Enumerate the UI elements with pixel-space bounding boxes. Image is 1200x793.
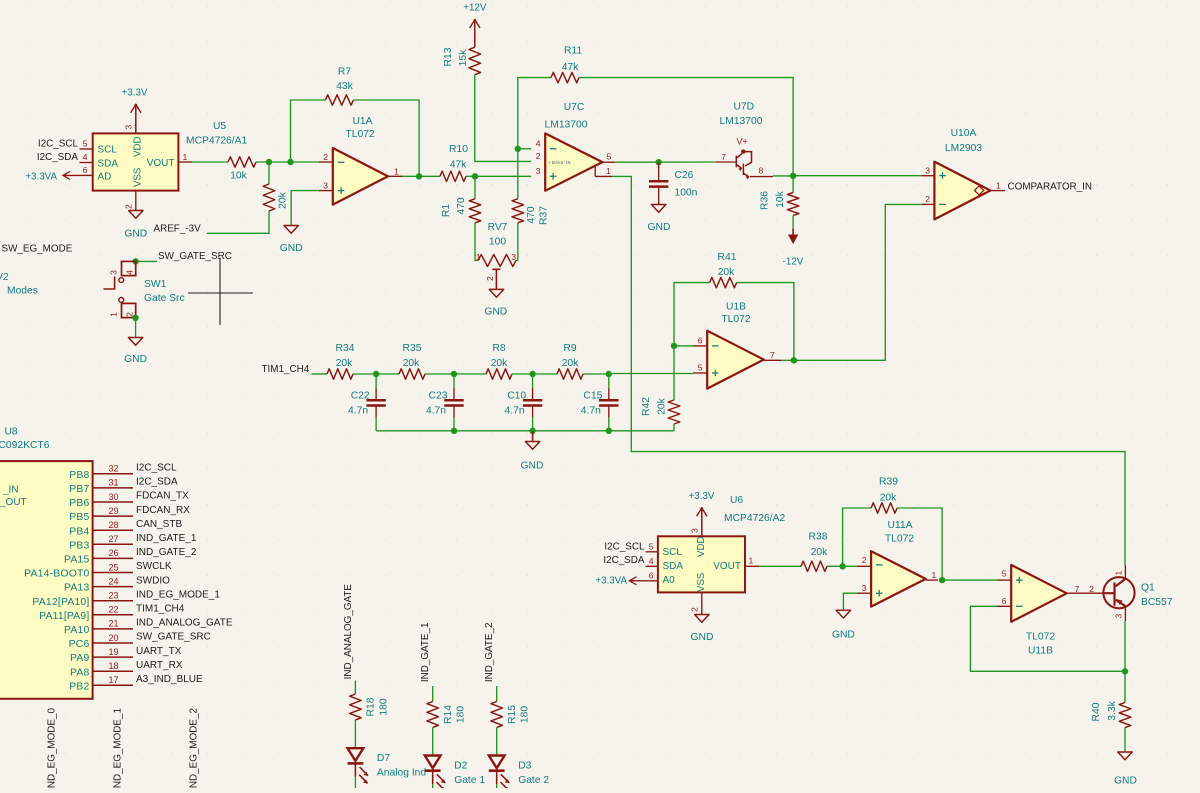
resistor R34 20k	[327, 369, 353, 379]
junction C15 tap	[606, 371, 612, 377]
U6 pin 1 (VOUT)	[745, 565, 759, 567]
ground below RV7 wiper	[489, 289, 503, 297]
svg-text:4.7n: 4.7n	[581, 405, 601, 416]
svg-text:IND_ANALOG_GATE: IND_ANALOG_GATE	[136, 618, 233, 629]
wire R36 to -12V	[792, 216, 794, 229]
svg-text:IND_GATE_1: IND_GATE_1	[420, 622, 431, 682]
svg-text:6: 6	[649, 571, 654, 581]
svg-text:TL072: TL072	[721, 314, 750, 325]
IC U8 STM32C092KCT6 body (clipped at left)	[0, 461, 93, 699]
svg-text:R18: R18	[366, 697, 377, 716]
junction R39 tap	[839, 563, 845, 569]
U11B pin 5 non-inverting	[997, 579, 1011, 581]
junction rail C15	[606, 428, 612, 434]
power +3.3VA at U6 pin 6	[630, 580, 646, 582]
svg-text:PB2: PB2	[69, 681, 89, 692]
svg-text:GND: GND	[124, 229, 147, 240]
U5 pin 3 (VDD)	[135, 119, 137, 133]
wire IND_GATE_1 to R14	[432, 686, 434, 702]
wire U5 VOUT to R10k	[192, 161, 228, 163]
U1B pin 5 non-inverting	[693, 372, 707, 374]
svg-text:100n: 100n	[675, 187, 698, 198]
svg-text:GND: GND	[691, 632, 714, 643]
svg-text:PA11[PA9]: PA11[PA9]	[39, 611, 89, 622]
wire R35 to R8	[425, 373, 486, 375]
svg-text:PB3: PB3	[69, 540, 89, 551]
op-amp U11A TL072 body	[871, 551, 926, 606]
svg-text:D3: D3	[518, 761, 531, 772]
resistor R13 15k vertical	[469, 47, 481, 74]
svg-text:V+: V+	[737, 136, 748, 146]
wire R11 right to U7D output node	[579, 78, 793, 176]
svg-text:3: 3	[690, 528, 700, 533]
power +3.3VA at U5 pin 6	[63, 174, 80, 176]
svg-text:7: 7	[770, 350, 775, 360]
svg-text:IND_ANALOG_GATE: IND_ANALOG_GATE	[343, 584, 354, 680]
wire U6 VOUT to R38	[759, 565, 801, 567]
U8 pin 24 PA13 -> SWDIO	[93, 586, 133, 588]
U10A pin 3 non-inverting	[922, 175, 935, 177]
resistor R36 10k vertical	[787, 193, 799, 216]
U5 pin 2 (VSS)	[135, 191, 137, 211]
U8 pin 31 PB7 -> I2C_SDA	[93, 487, 133, 489]
svg-text:47k: 47k	[562, 62, 579, 73]
wire U11A + input to ground	[843, 593, 857, 610]
svg-text:GND: GND	[521, 461, 544, 472]
svg-text:C22: C22	[351, 391, 370, 402]
wire junction to U10A non-inverting input	[793, 175, 922, 177]
LED D3	[489, 756, 505, 769]
svg-text:C23: C23	[429, 391, 448, 402]
svg-text:3.3k: 3.3k	[1107, 700, 1118, 720]
svg-text:6: 6	[83, 165, 88, 175]
svg-text:VOUT: VOUT	[147, 158, 175, 169]
svg-text:LM13700: LM13700	[545, 120, 588, 131]
svg-text:R11: R11	[564, 45, 582, 56]
svg-text:2: 2	[1089, 584, 1094, 594]
U10A pin 1 output	[990, 190, 1005, 192]
junction SW1 pin 2	[132, 315, 138, 321]
wire R9 to U1B non-inverting input	[583, 373, 609, 375]
svg-text:U6: U6	[730, 495, 743, 506]
svg-text:I2C_SCL: I2C_SCL	[136, 463, 177, 474]
U8 pin 22 PA11[PA9] -> TIM1_CH4	[93, 614, 133, 616]
U7C pin 1 (bias out bottom)	[594, 167, 596, 177]
IC U6 MCP4726/A2 body	[658, 536, 745, 592]
svg-text:U11B: U11B	[1028, 645, 1053, 656]
svg-text:20k: 20k	[880, 493, 897, 504]
svg-text:3: 3	[536, 166, 541, 176]
svg-text:I2C_SCL: I2C_SCL	[604, 541, 645, 552]
resistor 10k (series from U5)	[228, 157, 256, 167]
svg-text:SW1: SW1	[144, 279, 167, 290]
svg-text:20k: 20k	[811, 547, 828, 558]
svg-text:2: 2	[536, 151, 541, 161]
wire junction to U7C pin 4	[518, 148, 531, 150]
svg-text:PA8: PA8	[70, 667, 89, 678]
junction C26 tap	[656, 159, 662, 165]
wire U1A + input to ground	[291, 191, 319, 226]
svg-text:180: 180	[456, 706, 467, 723]
U7D pin 8 output	[750, 176, 773, 178]
svg-text:+3.3V: +3.3V	[689, 491, 715, 502]
svg-text:PB4: PB4	[69, 526, 89, 537]
junction U7D output node	[790, 173, 796, 179]
svg-text:C092KCT6: C092KCT6	[0, 440, 50, 451]
svg-text:VSS: VSS	[696, 572, 707, 592]
svg-text:25: 25	[108, 562, 118, 572]
svg-text:Gate 2: Gate 2	[518, 775, 549, 786]
svg-text:27: 27	[108, 534, 118, 544]
op-amp U11B TL072 body	[1011, 565, 1066, 622]
svg-text:31: 31	[108, 478, 118, 488]
svg-text:SWDIO: SWDIO	[136, 575, 170, 586]
svg-text:20k: 20k	[403, 358, 420, 369]
svg-text:3: 3	[109, 270, 119, 275]
ground below C26	[652, 205, 666, 213]
SW1 lever	[104, 277, 115, 290]
op-amp U1B TL072 body	[707, 331, 764, 389]
wire R7 feedback left leg	[291, 100, 326, 162]
U7C pin 5 output	[602, 161, 615, 163]
svg-text:MCP4726/A1: MCP4726/A1	[186, 136, 248, 147]
svg-text:2: 2	[323, 152, 328, 162]
svg-text:UART_RX: UART_RX	[136, 660, 183, 671]
svg-text:SCL: SCL	[98, 145, 118, 156]
resistor R1 470 vertical	[474, 176, 476, 199]
svg-text:10k: 10k	[230, 171, 247, 182]
svg-text:SW_EG_MODE: SW_EG_MODE	[2, 244, 73, 255]
wire 20k tap down	[268, 162, 270, 184]
wire Q1 emitter to junction	[1124, 621, 1126, 672]
ground below R40	[1118, 752, 1132, 760]
svg-text:D7: D7	[377, 753, 390, 764]
capacitor bottom rail wire	[376, 430, 674, 432]
svg-text:3: 3	[124, 125, 134, 130]
svg-text:20k: 20k	[718, 267, 735, 278]
svg-text:28: 28	[108, 520, 118, 530]
wire R38 to U11A inverting input	[827, 565, 857, 567]
svg-text:R14: R14	[443, 705, 454, 724]
svg-text:30: 30	[108, 492, 118, 502]
svg-text:I2C_SDA: I2C_SDA	[603, 555, 645, 566]
U8 pin 17 PB2 -> A3_IND_BLUE	[93, 684, 133, 686]
svg-text:PB8: PB8	[69, 470, 89, 481]
svg-text:1: 1	[109, 312, 119, 317]
svg-text:AREF_-3V: AREF_-3V	[154, 223, 202, 234]
svg-text:R41: R41	[718, 252, 737, 263]
svg-text:TL072: TL072	[885, 534, 914, 545]
svg-text:R8: R8	[492, 343, 505, 354]
svg-text:COMPARATOR_IN: COMPARATOR_IN	[1008, 182, 1093, 193]
junction R1 tap	[472, 173, 478, 179]
svg-text:IND_GATE_2: IND_GATE_2	[484, 623, 495, 683]
svg-text:GND: GND	[280, 243, 303, 254]
ground below ladder	[532, 432, 534, 442]
junction U11A output	[939, 577, 945, 583]
U8 pin 23 PA12[PA10] -> IND_EG_MODE_1	[93, 600, 133, 602]
svg-text:PA12[PA10]: PA12[PA10]	[32, 597, 89, 608]
svg-text:U8: U8	[5, 427, 18, 438]
wire U7C pin1 long route to Q1 collector	[612, 176, 1125, 565]
svg-text:PA14-BOOT0: PA14-BOOT0	[24, 569, 89, 580]
svg-text:SCL: SCL	[663, 547, 683, 558]
U6 pin 2 (VSS)	[701, 592, 703, 614]
wire U1B output up to U10A inverting input	[794, 204, 922, 360]
svg-text:TL072: TL072	[346, 129, 375, 140]
svg-text:LM2903: LM2903	[945, 143, 982, 154]
svg-text:Gate 1: Gate 1	[454, 775, 485, 786]
wire U1B output to junction	[781, 359, 794, 361]
resistor R14 180 vertical	[427, 702, 439, 728]
svg-text:MCP4726/A2: MCP4726/A2	[724, 513, 786, 524]
svg-text:R40: R40	[1091, 702, 1102, 721]
svg-text:A0: A0	[663, 575, 676, 586]
U5 pin 5 (SCL)	[80, 148, 93, 150]
U5 pin 4 (SDA)	[80, 162, 93, 164]
wire R15 to D3	[496, 728, 498, 756]
wire D2 cathode down	[432, 771, 434, 784]
svg-text:U7D: U7D	[734, 102, 755, 113]
svg-text:VSS: VSS	[133, 167, 144, 187]
svg-text:470: 470	[456, 197, 467, 214]
svg-text:100: 100	[489, 236, 506, 247]
svg-text:17: 17	[108, 675, 118, 685]
junction at R7 feedback tap	[287, 159, 293, 165]
svg-text:22: 22	[108, 605, 118, 615]
resistor R10 47k	[440, 171, 466, 181]
svg-text:1: 1	[394, 166, 399, 176]
svg-text:TIM1_CH4: TIM1_CH4	[136, 604, 185, 615]
svg-text:PB7: PB7	[69, 484, 89, 495]
svg-text:Modes: Modes	[7, 286, 38, 297]
LED D2	[425, 756, 441, 769]
svg-text:5: 5	[1002, 569, 1007, 579]
svg-text:GND: GND	[648, 222, 671, 233]
svg-text:43k: 43k	[336, 81, 353, 92]
junction U1B pin6 node	[671, 343, 677, 349]
svg-text:47k: 47k	[450, 160, 467, 171]
U11A pin 1 output	[926, 579, 938, 581]
resistor R38 20k	[801, 561, 827, 571]
wire U1A output to R10	[402, 175, 440, 177]
svg-text:5: 5	[607, 152, 612, 162]
svg-text:R38: R38	[809, 532, 828, 543]
switch SW1 pad 4 square	[122, 261, 136, 275]
resistor R37 470 vertical	[512, 199, 524, 223]
wire U11A output to U11B non-inverting input	[942, 579, 997, 581]
wire R42 to cap bottom rail	[673, 424, 675, 431]
junction rail C23	[451, 428, 457, 434]
wire R13 to U7C bias pin 2	[475, 75, 531, 162]
svg-text:+3.3VA: +3.3VA	[25, 171, 57, 182]
U8 pin 21 PA10 -> IND_ANALOG_GATE	[93, 628, 133, 630]
U11B pin 7 output to Q1 base	[1067, 592, 1103, 594]
U8 pin 28 PB4 -> CAN_STB	[93, 529, 133, 531]
power -12V	[792, 229, 794, 237]
svg-text:2: 2	[690, 607, 700, 612]
svg-text:1: 1	[996, 180, 1001, 190]
svg-text:GND: GND	[484, 307, 507, 318]
svg-text:I2C_SDA: I2C_SDA	[37, 152, 79, 163]
svg-text:GND: GND	[124, 354, 147, 365]
op-amp U1A TL072 body	[333, 148, 388, 205]
svg-text:15k: 15k	[458, 49, 469, 66]
svg-text:VDD: VDD	[696, 537, 707, 557]
wire SW1 pin4 to label	[136, 260, 157, 262]
svg-text:7: 7	[1075, 584, 1080, 594]
svg-text:2: 2	[862, 555, 867, 565]
svg-text:R9: R9	[563, 343, 576, 354]
svg-text:1: 1	[476, 252, 481, 262]
U11B pin 6 inverting	[997, 605, 1011, 607]
svg-text:1: 1	[749, 556, 754, 566]
wire D3 cathode down	[496, 771, 498, 784]
svg-text:I2C_SCL: I2C_SCL	[38, 138, 79, 149]
capacitor C23 4.7n	[453, 374, 455, 389]
svg-text:4: 4	[83, 152, 88, 162]
svg-text:RV7: RV7	[488, 222, 508, 233]
U1A pin 1 output	[388, 175, 402, 177]
svg-text:20k: 20k	[336, 358, 353, 369]
U11A pin 3 non-inverting	[857, 592, 871, 594]
SW1 lower contact circle	[119, 298, 124, 303]
power +12V	[474, 20, 476, 47]
svg-text:24: 24	[108, 576, 118, 586]
svg-text:3: 3	[323, 181, 328, 191]
resistor R39 20k	[871, 503, 897, 513]
U6 pin 4 (SDA)	[646, 565, 658, 567]
svg-text:R42: R42	[641, 397, 652, 416]
svg-text:SW_GATE_SRC: SW_GATE_SRC	[136, 632, 211, 643]
resistor R40 3.3k vertical	[1119, 703, 1131, 728]
svg-text:PB5: PB5	[69, 512, 89, 523]
wire IND_ANALOG_GATE to R18	[354, 681, 356, 695]
wire R7 feedback right leg	[353, 100, 419, 176]
svg-text:FDCAN_TX: FDCAN_TX	[136, 491, 189, 502]
svg-text:20k: 20k	[491, 358, 508, 369]
resistor R42 20k vertical	[668, 400, 680, 424]
junction U1A output/feedback	[416, 173, 422, 179]
svg-text:_IN: _IN	[2, 485, 19, 496]
power +3.3V at U6	[701, 508, 703, 536]
resistor R18 180 vertical	[350, 694, 362, 720]
svg-text:R39: R39	[879, 477, 898, 488]
wire D7 cathode down	[354, 763, 356, 776]
junction Q1 emitter / R40	[1122, 668, 1128, 674]
svg-text:VDD: VDD	[133, 137, 144, 157]
wire SW1 pin2 to ground	[135, 318, 137, 338]
potentiometer RV7 100	[478, 255, 516, 267]
svg-text:R36: R36	[760, 191, 771, 210]
svg-text:7: 7	[721, 152, 726, 162]
wire R40 to ground	[1124, 728, 1126, 753]
U8 pin 18 PA8 -> UART_RX	[93, 670, 133, 672]
svg-text:AD: AD	[98, 172, 112, 183]
svg-text:3: 3	[925, 166, 930, 176]
svg-text:20: 20	[108, 633, 118, 643]
svg-text:GND: GND	[1114, 776, 1137, 787]
svg-text:TIM1_CH4: TIM1_CH4	[262, 364, 310, 375]
junction U1B output	[791, 357, 797, 363]
U10A open-collector glyph	[975, 186, 984, 195]
op-amp U10A LM2903 body	[934, 162, 990, 220]
resistor R41 20k	[710, 277, 737, 287]
U8 pin 32 PB8 -> I2C_SCL	[93, 473, 133, 475]
wire R37 up to U7C inverting input and R11	[518, 78, 551, 199]
svg-text:3: 3	[511, 252, 516, 262]
U8 pin 25 PA14-BOOT0 -> SWCLK	[93, 572, 133, 574]
svg-text:+12V: +12V	[463, 3, 487, 14]
svg-text:20k: 20k	[562, 358, 579, 369]
svg-text:U7C: U7C	[564, 102, 585, 113]
IC U5 MCP4726/A1 body	[93, 133, 179, 190]
wire R8 to R9	[512, 373, 557, 375]
U5 pin 6 (AD)	[80, 174, 93, 176]
ground below U11A non-inverting input	[836, 610, 850, 618]
wire 10k to U1A inverting input	[256, 161, 319, 163]
RV7 wiper pin 2	[492, 269, 500, 289]
svg-text:23: 23	[108, 591, 118, 601]
resistor R7 43k	[325, 95, 353, 105]
svg-text:U11A: U11A	[888, 520, 913, 531]
svg-text:PA9: PA9	[70, 653, 89, 664]
svg-text:SW_GATE_SRC: SW_GATE_SRC	[158, 251, 232, 262]
wire TIM1_CH4 to R34	[312, 373, 328, 375]
U7D pin 7 input	[716, 161, 737, 163]
svg-text:PA13: PA13	[64, 583, 89, 594]
svg-text:SWCLK: SWCLK	[136, 561, 172, 572]
wire IND_GATE_2 to R15	[496, 686, 498, 702]
wire R1 to RV7 pin 1	[475, 223, 478, 261]
U11A pin 2 inverting	[857, 565, 871, 567]
svg-text:2: 2	[485, 276, 495, 281]
U8 pin 30 PB6 -> FDCAN_TX	[93, 501, 133, 503]
svg-text:20k: 20k	[278, 191, 289, 208]
resistor R8 20k	[486, 369, 512, 379]
svg-text:GND: GND	[832, 630, 855, 641]
svg-text:10k: 10k	[775, 190, 786, 207]
svg-text:_OUT: _OUT	[0, 497, 27, 508]
svg-text:U1B: U1B	[726, 301, 746, 312]
capacitor C22 4.7n	[375, 374, 377, 389]
svg-text:SDA: SDA	[98, 159, 119, 170]
U6 pin 6 (A0)	[646, 580, 658, 582]
wire C15 node to U1B pin 5	[609, 373, 693, 375]
LED D7	[348, 748, 364, 761]
svg-text:+3.3VA: +3.3VA	[595, 576, 627, 587]
wire 20k to AREF_-3V	[207, 211, 269, 233]
svg-text:IND_GATE_1: IND_GATE_1	[136, 533, 197, 544]
svg-text:4.7n: 4.7n	[505, 405, 525, 416]
svg-text:1: 1	[1114, 571, 1124, 576]
wire U7C output to U7D pin 7	[615, 161, 716, 163]
svg-text:ND_EG_MODE_1: ND_EG_MODE_1	[113, 707, 124, 788]
svg-text:5: 5	[698, 363, 703, 373]
svg-text:2: 2	[124, 204, 134, 209]
svg-text:180: 180	[520, 706, 531, 723]
svg-text:U5: U5	[213, 121, 226, 132]
op-amp U7C LM13700 body	[545, 133, 602, 190]
ground below U6	[695, 615, 709, 623]
svg-text:21: 21	[108, 619, 118, 629]
ground symbol below U5	[129, 211, 143, 219]
svg-text:4: 4	[649, 556, 654, 566]
junction U7C pin4 node	[515, 146, 521, 152]
svg-text:U10A: U10A	[951, 128, 977, 139]
svg-text:470: 470	[526, 206, 537, 223]
svg-text:ND_EG_MODE_0: ND_EG_MODE_0	[47, 707, 58, 788]
